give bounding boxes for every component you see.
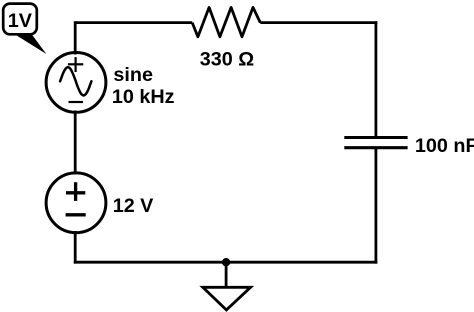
svg-text:10 kHz: 10 kHz: [112, 86, 175, 108]
annotation callout 1V box: [3, 4, 37, 35]
annotation callout 1V tail: [14, 34, 47, 55]
ground stub wire: [225, 262, 228, 287]
wire: left net, 12 V source bottom down to bottom-left corner: [74, 231, 77, 264]
wire: top net, left segment (source top corner to resistor): [75, 21, 192, 24]
wire: bottom net (bottom-left corner to bottom-right corner): [74, 261, 378, 264]
svg-text:100 nF: 100 nF: [415, 135, 474, 157]
wire: right net, capacitor bottom plate down to bottom-right corner: [374, 148, 377, 264]
svg-text:sine: sine: [113, 64, 153, 86]
V2 minus polarity mark: [66, 213, 86, 216]
V2 plus polarity mark: [66, 182, 85, 201]
voltage source V1 (sine) circle: [46, 53, 106, 113]
svg-text:330 Ω: 330 Ω: [200, 48, 255, 70]
voltage source V2 (12 V DC) circle: [46, 173, 106, 233]
capacitor C1 bottom plate: [344, 146, 407, 149]
V1 sine wave glyph: [60, 67, 91, 95]
wire: left net, top corner down to sine source top: [74, 21, 77, 54]
svg-text:12 V: 12 V: [113, 195, 154, 217]
junction node dot on bottom net: [222, 258, 230, 266]
resistor R1 zigzag body: [192, 7, 260, 36]
V1 minus polarity mark: [69, 101, 84, 103]
wire: left net, between sine source and 12 V source: [74, 111, 77, 175]
wire: top net, right segment (resistor to top-right corner): [260, 21, 377, 24]
capacitor C1 top plate: [344, 136, 407, 139]
svg-text:1V: 1V: [8, 10, 33, 32]
ground symbol triangle: [203, 287, 251, 310]
wire: right net, top corner down to capacitor top plate: [374, 21, 377, 137]
V1 plus polarity mark: [68, 57, 83, 72]
